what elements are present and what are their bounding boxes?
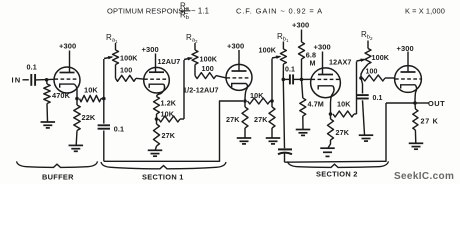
ground under 27K section1 bbox=[148, 150, 163, 156]
label +300 V2 plate bbox=[142, 45, 159, 54]
potentiometer Ra1 100K bbox=[113, 43, 139, 65]
svg-text:0.1: 0.1 bbox=[114, 124, 124, 133]
capacitor 0.1 bypass to ground bbox=[356, 78, 382, 135]
svg-text:22K: 22K bbox=[82, 113, 96, 122]
wire OUT node to bus section2 bbox=[386, 102, 415, 104]
svg-text:100K: 100K bbox=[259, 46, 277, 55]
brace BUFFER bbox=[17, 161, 98, 167]
wire V5 cathode down bbox=[415, 85, 417, 103]
wire +300 to V1 plate bbox=[69, 51, 71, 69]
resistor 100 grid stopper V3 bbox=[195, 64, 226, 79]
svg-text:27K: 27K bbox=[254, 115, 268, 124]
wiper arrow Rb2 bbox=[357, 59, 367, 62]
node V1 cathode bbox=[75, 97, 79, 101]
label 12AX7 bbox=[329, 58, 351, 67]
brace SECTION 1 bbox=[101, 162, 226, 169]
wire V4 cathode down bbox=[331, 86, 335, 114]
label 12AU7 bbox=[158, 57, 181, 66]
label +300 V4 plate bbox=[314, 43, 331, 52]
title text OPTIMUM RESPONSE bbox=[107, 7, 189, 16]
ground under 27K output bbox=[409, 143, 424, 149]
svg-text:100K: 100K bbox=[372, 53, 390, 62]
svg-text:+300: +300 bbox=[59, 42, 76, 51]
resistor 27K cathode V4 bbox=[328, 114, 350, 148]
node V2 cathode feedback bbox=[155, 117, 159, 121]
label +300 6.8M supply bbox=[292, 21, 309, 30]
potentiometer Ra2 100K bbox=[192, 43, 218, 65]
resistor 1.2K cathode V2 bbox=[154, 97, 177, 120]
svg-text:0.1: 0.1 bbox=[285, 66, 295, 73]
svg-text:1/2-12AU7: 1/2-12AU7 bbox=[183, 86, 219, 95]
node section1 divider bbox=[102, 97, 106, 101]
svg-text:+300: +300 bbox=[397, 44, 414, 53]
wire feedback bus section1 bbox=[104, 101, 243, 161]
svg-text:+300: +300 bbox=[142, 45, 159, 54]
resistor 6.8M grid bias upper bbox=[299, 30, 317, 80]
svg-text:100K: 100K bbox=[200, 55, 218, 64]
svg-text:27 K: 27 K bbox=[421, 116, 439, 125]
svg-text:K = X 1,000: K = X 1,000 bbox=[405, 7, 445, 16]
label SECTION 2 bbox=[316, 169, 358, 178]
svg-text:27K: 27K bbox=[226, 115, 240, 124]
wire input cap to grid node bbox=[35, 78, 54, 81]
label Ra1 bbox=[106, 33, 118, 44]
label 1/2-12AU7 bbox=[183, 86, 219, 95]
svg-text:4.7M: 4.7M bbox=[308, 100, 324, 109]
resistor 10K buffer series bbox=[80, 85, 104, 102]
resistor 4.7M grid bias lower bbox=[300, 79, 324, 129]
tube V4 12AX7 triode bbox=[311, 67, 341, 97]
svg-text:27K: 27K bbox=[162, 131, 176, 140]
wire Rb1 bottom to node bbox=[282, 64, 284, 79]
resistor 10K feedback Rb section1 bbox=[159, 110, 185, 123]
svg-text:27K: 27K bbox=[336, 128, 350, 137]
node V3 cathode bbox=[243, 99, 247, 103]
wire +300 to V2 plate bbox=[155, 54, 157, 69]
wire V4 grid entry bbox=[302, 78, 312, 80]
svg-text:100: 100 bbox=[202, 64, 214, 73]
text K = X 1,000 bbox=[405, 7, 445, 16]
capacitor 0.1 coupling to V4 grid bbox=[283, 66, 301, 84]
svg-text:OUT: OUT bbox=[428, 99, 445, 108]
node grid V1 bbox=[45, 78, 49, 82]
wire V2 cathode down bbox=[157, 84, 165, 96]
svg-text:10K: 10K bbox=[161, 110, 175, 119]
svg-text:+300: +300 bbox=[227, 42, 244, 51]
wire V1 cathode to node bbox=[74, 84, 77, 99]
wire wiper Ra1 riser bbox=[103, 59, 105, 99]
label Rb2 bbox=[361, 30, 373, 41]
svg-text:0.1: 0.1 bbox=[27, 63, 37, 72]
svg-text:+300: +300 bbox=[292, 21, 309, 30]
node Rb1 bottom bbox=[282, 78, 286, 82]
ground under 27K left bbox=[237, 138, 252, 144]
svg-text:100: 100 bbox=[120, 66, 132, 75]
wire bus section2 bbox=[285, 103, 387, 162]
capacitor 0.1 input coupling bbox=[27, 63, 37, 86]
svg-text:Ra2: Ra2 bbox=[186, 33, 198, 44]
text ~ 1.1 bbox=[191, 7, 209, 16]
label OUT bbox=[428, 99, 445, 108]
resistor 10K section2 divider bbox=[248, 91, 273, 104]
capacitor electrolytic to bus bbox=[278, 79, 292, 162]
tube V5 output triode bbox=[395, 65, 422, 92]
label IN bbox=[12, 75, 22, 84]
svg-text:~ 1.1: ~ 1.1 bbox=[191, 7, 209, 16]
node OUT bbox=[413, 101, 417, 105]
svg-text:100: 100 bbox=[366, 69, 378, 76]
potentiometer Rb1 100K bbox=[259, 42, 287, 65]
svg-text:IN: IN bbox=[12, 75, 22, 84]
wire +300 to V3 plate bbox=[238, 50, 240, 64]
wire feedback riser to Rb2 wiper bbox=[356, 62, 358, 115]
resistor 27K output load bbox=[413, 103, 439, 143]
svg-text:Rb1: Rb1 bbox=[277, 32, 289, 43]
tube V3 section2 triode bbox=[226, 64, 252, 91]
wire V3 cathode down bbox=[245, 84, 247, 102]
svg-text:M: M bbox=[310, 59, 316, 68]
svg-text:100K: 100K bbox=[120, 54, 138, 63]
tube V1 buffer triode bbox=[54, 67, 80, 94]
svg-text:12AU7: 12AU7 bbox=[158, 57, 181, 66]
label Ra2 bbox=[186, 33, 198, 44]
ground under 0.1 bypass bbox=[359, 135, 374, 141]
svg-text:0.1: 0.1 bbox=[373, 95, 383, 102]
node Rb2 bottom grid bbox=[359, 76, 363, 80]
svg-text:SECTION 1: SECTION 1 bbox=[142, 172, 184, 181]
resistor 27K right bbox=[254, 101, 275, 138]
ground under 27K V4 on bus bbox=[320, 148, 335, 156]
svg-text:10K: 10K bbox=[250, 91, 264, 100]
resistor 27K cathode V2 bbox=[154, 119, 176, 150]
resistor 100 grid stopper V2 bbox=[116, 66, 145, 82]
wiper arrow Rb1 bbox=[272, 56, 282, 59]
wire Rb2 bottom to grid node bbox=[361, 64, 368, 78]
label Rb1 bbox=[277, 32, 289, 43]
node V4 cathode bbox=[329, 112, 333, 116]
svg-text:Ra1: Ra1 bbox=[106, 33, 118, 44]
svg-text:BUFFER: BUFFER bbox=[42, 172, 74, 181]
watermark SeekIC.com bbox=[394, 171, 454, 182]
capacitor 0.1 section1 to bus bbox=[98, 99, 124, 162]
label +300 buffer plate bbox=[59, 42, 76, 51]
svg-text:SeekIC.com: SeekIC.com bbox=[394, 171, 454, 182]
brace SECTION 2 bbox=[288, 161, 389, 167]
node 10K/27K junction bbox=[270, 99, 274, 103]
label +300 V3 plate bbox=[227, 42, 244, 51]
resistor 470K grid leak bbox=[44, 80, 71, 122]
svg-text:12AX7: 12AX7 bbox=[329, 58, 351, 67]
node V4 grid bbox=[300, 78, 304, 82]
svg-text:SECTION 2: SECTION 2 bbox=[316, 169, 358, 178]
text C.F. GAIN ~ 0.92 = A bbox=[236, 7, 323, 16]
svg-text:1.2K: 1.2K bbox=[161, 99, 177, 108]
label SECTION 1 bbox=[142, 172, 184, 181]
ground under 470K bbox=[41, 122, 56, 128]
svg-text:10K: 10K bbox=[84, 85, 98, 94]
wire riser to Rb1 wiper bbox=[271, 59, 273, 102]
wire Ra2 bottom to 100 ohm bbox=[194, 65, 196, 76]
label +300 V5 plate bbox=[397, 44, 414, 53]
resistor 100 grid stopper V5 bbox=[363, 69, 395, 82]
wire feedback riser to Ra2 wiper bbox=[183, 60, 185, 119]
fraction Ra/Rb bbox=[180, 2, 191, 22]
wire OUT bbox=[415, 102, 429, 104]
resistor 10K feedback Rb section2 bbox=[333, 100, 357, 118]
wiper arrow Ra2 bbox=[184, 57, 193, 61]
wiper arrow Ra1 bbox=[104, 56, 114, 59]
svg-text:Rb2: Rb2 bbox=[361, 30, 373, 41]
svg-text:+300: +300 bbox=[314, 43, 331, 52]
svg-text:OPTIMUM RESPONSE: OPTIMUM RESPONSE bbox=[107, 7, 189, 16]
tube V2 section1 triode bbox=[144, 67, 170, 93]
label BUFFER bbox=[42, 172, 74, 181]
svg-text:10K: 10K bbox=[337, 100, 351, 109]
wire IN to input cap bbox=[23, 79, 29, 81]
resistor 27K left cathode V3 bbox=[226, 101, 248, 138]
wire Ra1 bottom to 100 ohm bbox=[115, 65, 117, 79]
wire +300 to V4 plate bbox=[322, 52, 324, 69]
wire +300 to V5 plate bbox=[407, 52, 409, 66]
svg-text:C.F. GAIN ~ 0.92 = A: C.F. GAIN ~ 0.92 = A bbox=[236, 7, 323, 16]
potentiometer Rb2 100K bbox=[365, 41, 390, 65]
ground under 22K bbox=[69, 145, 84, 151]
ground under 4.7M bbox=[296, 130, 311, 136]
resistor 22K cathode load bbox=[74, 99, 96, 146]
ground under 27K right bbox=[266, 138, 281, 144]
